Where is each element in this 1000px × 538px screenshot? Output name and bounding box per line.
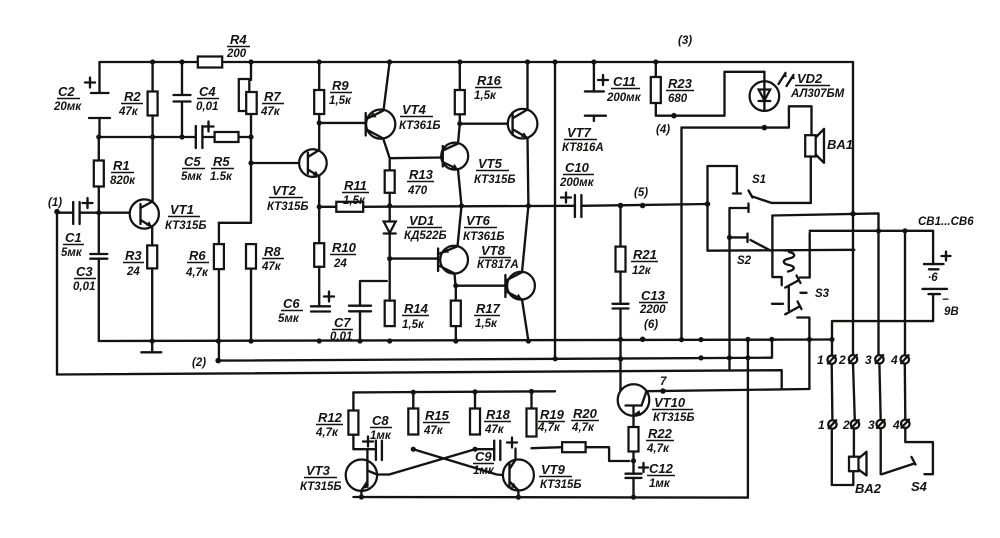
LED VD2 xyxy=(682,71,845,130)
svg-text:C12: C12 xyxy=(649,461,674,476)
wire R6 jog xyxy=(219,222,251,224)
switch S4 xyxy=(881,428,933,494)
svg-text:(2): (2) xyxy=(192,357,206,369)
transistor VT1 xyxy=(130,199,207,232)
capacitor C11 xyxy=(585,62,642,121)
svg-text:1мк: 1мк xyxy=(649,478,671,490)
svg-text:VT7: VT7 xyxy=(567,125,592,140)
svg-text:КТ315Б: КТ315Б xyxy=(540,479,582,491)
svg-text:1: 1 xyxy=(818,418,825,432)
svg-text:1,5к: 1,5к xyxy=(475,318,498,330)
transistor VT5 xyxy=(441,124,515,206)
wire bus B to S3 link xyxy=(771,339,772,357)
resistor R23 xyxy=(651,62,765,116)
svg-text:0,01: 0,01 xyxy=(73,281,95,293)
resistor R1 xyxy=(94,137,136,213)
diagonal cross-coupling wires xyxy=(389,449,503,475)
wire VT4 base xyxy=(319,122,366,124)
resistor R2 xyxy=(118,62,158,201)
svg-text:9В: 9В xyxy=(944,306,959,318)
svg-text:R4: R4 xyxy=(230,32,247,47)
svg-text:S2: S2 xyxy=(737,255,752,267)
wire oscillator ground bus xyxy=(353,494,748,499)
svg-text:R14: R14 xyxy=(404,301,429,316)
svg-text:КТ315Б: КТ315Б xyxy=(300,481,342,493)
svg-text:1мк: 1мк xyxy=(370,430,392,442)
node (4) xyxy=(656,113,677,136)
svg-text:2200: 2200 xyxy=(639,304,666,316)
capacitor C10 xyxy=(559,160,708,217)
svg-text:R23: R23 xyxy=(668,76,693,91)
capacitor C4 xyxy=(174,62,220,137)
resistor R12 xyxy=(315,392,367,449)
svg-text:820к: 820к xyxy=(110,175,136,187)
svg-text:47к: 47к xyxy=(423,425,444,437)
wire VT2 base xyxy=(251,162,308,164)
svg-text:1,5к: 1,5к xyxy=(329,95,352,107)
svg-text:7: 7 xyxy=(660,376,667,388)
svg-text:КТ315Б: КТ315Б xyxy=(653,412,695,424)
svg-text:R1: R1 xyxy=(113,158,130,173)
svg-text:(5): (5) xyxy=(634,187,648,199)
wire СВ1..СВ6 line xyxy=(772,211,974,355)
svg-text:47к: 47к xyxy=(260,106,281,118)
svg-text:4,7к: 4,7к xyxy=(185,267,209,279)
svg-text:R17: R17 xyxy=(476,301,501,316)
svg-text:VT4: VT4 xyxy=(402,102,427,117)
svg-text:КТ361Б: КТ361Б xyxy=(399,120,441,132)
svg-text:C1: C1 xyxy=(65,230,82,245)
svg-text:VT6: VT6 xyxy=(466,213,491,228)
resistor R13 xyxy=(385,158,434,208)
wire bus C y=374.5..370 xyxy=(57,370,782,389)
svg-text:4,7к: 4,7к xyxy=(646,443,670,455)
svg-text:R20: R20 xyxy=(573,406,598,421)
wire VT10 collector line y=391 xyxy=(647,376,810,394)
ground xyxy=(141,338,161,352)
svg-text:2: 2 xyxy=(838,353,846,367)
svg-text:S4: S4 xyxy=(911,479,928,494)
svg-text:АЛ307БМ: АЛ307БМ xyxy=(790,88,845,100)
label VT7 xyxy=(562,125,604,154)
svg-text:24: 24 xyxy=(333,258,347,270)
svg-text:680: 680 xyxy=(668,93,688,105)
svg-text:R5: R5 xyxy=(213,154,230,169)
wire bus B y=360.5..357.7 xyxy=(218,355,771,361)
resistor R14 xyxy=(385,259,429,344)
wire oscillator rail y=392 xyxy=(353,389,555,395)
svg-text:2: 2 xyxy=(842,418,850,432)
svg-text:СВ1...СВ6: СВ1...СВ6 xyxy=(918,216,974,228)
node (2) xyxy=(192,357,221,369)
resistor R18 xyxy=(470,392,511,452)
svg-text:S1: S1 xyxy=(752,174,766,186)
transistor VT4 xyxy=(366,62,441,158)
svg-text:VT1: VT1 xyxy=(170,202,194,217)
wire VD1 to VT6 base xyxy=(390,257,438,259)
svg-text:(3): (3) xyxy=(678,35,692,47)
resistor R6 xyxy=(185,223,224,361)
svg-text:C4: C4 xyxy=(199,84,216,99)
speaker BA1 xyxy=(764,106,853,203)
node dots on top rail xyxy=(150,59,155,64)
svg-text:КД522Б: КД522Б xyxy=(404,230,447,242)
svg-text:КТ816А: КТ816А xyxy=(562,142,604,154)
svg-text:C8: C8 xyxy=(372,413,389,428)
svg-text:4,7к: 4,7к xyxy=(571,422,595,434)
svg-text:(1): (1) xyxy=(48,197,62,209)
svg-text:C7: C7 xyxy=(334,315,351,330)
capacitor C7 xyxy=(330,281,387,344)
svg-text:1: 1 xyxy=(817,353,824,367)
resistor R11 xyxy=(319,178,369,212)
svg-text:КТ315Б: КТ315Б xyxy=(267,201,309,213)
resistor R22 xyxy=(629,426,675,463)
svg-text:R8: R8 xyxy=(264,244,281,259)
wire supply feed to oscillator x=555 xyxy=(554,62,556,359)
speaker BA2 xyxy=(832,429,882,496)
svg-text:4: 4 xyxy=(890,353,898,367)
svg-text:3: 3 xyxy=(865,353,872,367)
svg-text:R18: R18 xyxy=(486,407,511,422)
svg-text:R2: R2 xyxy=(124,89,141,104)
svg-text:R16: R16 xyxy=(477,73,502,88)
svg-text:5мк: 5мк xyxy=(278,313,300,325)
svg-text:1,5к: 1,5к xyxy=(474,90,497,102)
wire bus A common y=341..339 xyxy=(99,337,835,342)
svg-text:R19: R19 xyxy=(540,407,565,422)
wire LED net vertical x=681.5 xyxy=(680,128,682,340)
resistor R7 (double-drawn body) xyxy=(239,62,284,223)
battery GB 9В xyxy=(832,252,959,356)
svg-text:R3: R3 xyxy=(125,248,142,263)
svg-text:4,7к: 4,7к xyxy=(537,422,561,434)
capacitor C13 xyxy=(613,288,669,391)
svg-text:BA1: BA1 xyxy=(827,137,853,152)
svg-text:VT5: VT5 xyxy=(478,156,503,171)
svg-text:R13: R13 xyxy=(409,167,434,182)
capacitor C8 xyxy=(363,413,392,460)
svg-text:24: 24 xyxy=(126,266,140,278)
svg-text:BA2: BA2 xyxy=(855,481,882,496)
wire osc ground vertical x=747.9 xyxy=(747,339,749,497)
wire line to terminal 4 xyxy=(810,228,933,355)
svg-text:470: 470 xyxy=(407,185,428,197)
connector terminals row 2 xyxy=(818,418,910,432)
resistor R10 xyxy=(314,204,356,295)
svg-text:C3: C3 xyxy=(76,264,93,279)
svg-text:1,5к: 1,5к xyxy=(402,319,425,331)
svg-text:R6: R6 xyxy=(189,248,206,263)
resistor R9 xyxy=(314,62,352,126)
svg-text:C2: C2 xyxy=(58,84,75,99)
wire output mid line (5) xyxy=(363,203,575,208)
svg-text:R9: R9 xyxy=(332,78,349,93)
svg-text:R15: R15 xyxy=(425,408,450,423)
wires between terminal rows xyxy=(832,364,906,421)
svg-text:C10: C10 xyxy=(565,160,590,175)
wire feedback line y=137 from C2/R1 to R7 node xyxy=(99,136,196,138)
resistor R16 xyxy=(455,62,502,126)
transistor VT6 xyxy=(438,206,504,286)
connector terminals row 1 xyxy=(817,353,909,367)
switch S2 xyxy=(727,204,771,371)
capacitor C3 xyxy=(73,210,107,341)
resistor R3 xyxy=(123,227,157,341)
svg-text:R7: R7 xyxy=(264,89,281,104)
wire (5) line to S1 vertical xyxy=(705,166,855,251)
wire VT4 collector to VT5 base xyxy=(390,156,443,159)
capacitor C6 xyxy=(278,292,334,344)
svg-text:47к: 47к xyxy=(261,261,282,273)
wire VT6 collector to VT8 base xyxy=(453,283,505,301)
svg-text:R22: R22 xyxy=(648,426,673,441)
svg-text:12к: 12к xyxy=(632,265,652,277)
capacitor C1 xyxy=(57,198,141,259)
svg-text:КТ817А: КТ817А xyxy=(477,259,519,271)
switch S1 xyxy=(708,166,811,203)
svg-text:VT9: VT9 xyxy=(541,462,566,477)
wire top supply rail y=62 xyxy=(100,61,854,63)
transistor VT5a top-right xyxy=(460,62,538,206)
node (1) input xyxy=(48,197,62,215)
svg-text:20мк: 20мк xyxy=(53,101,82,113)
svg-text:200мк: 200мк xyxy=(559,177,595,189)
svg-text:VD1: VD1 xyxy=(409,213,434,228)
svg-text:5мк: 5мк xyxy=(61,247,83,259)
svg-text:(6): (6) xyxy=(644,319,658,331)
svg-text:200: 200 xyxy=(226,48,247,60)
svg-text:47к: 47к xyxy=(484,424,505,436)
svg-text:R11: R11 xyxy=(344,178,367,193)
svg-text:КТ361Б: КТ361Б xyxy=(463,231,505,243)
svg-text:VT10: VT10 xyxy=(654,395,686,410)
capacitor C2 xyxy=(53,62,110,137)
node (6) xyxy=(640,319,658,342)
svg-text:S3: S3 xyxy=(815,288,830,300)
resistor R19 xyxy=(527,392,566,437)
capacitor C12 xyxy=(626,461,676,497)
svg-text:КТ315Б: КТ315Б xyxy=(165,220,207,232)
svg-text:C13: C13 xyxy=(641,288,666,303)
svg-text:1,5к: 1,5к xyxy=(343,195,366,207)
svg-text:VT2: VT2 xyxy=(272,183,297,198)
resistor R5 xyxy=(210,132,239,183)
resistor R4 xyxy=(198,32,250,68)
svg-text:C11: C11 xyxy=(613,74,636,89)
svg-text:C6: C6 xyxy=(283,296,300,311)
svg-text:VT8: VT8 xyxy=(481,243,506,258)
svg-text:3: 3 xyxy=(868,418,875,432)
transistor VT8 xyxy=(477,206,535,344)
resistor R20 xyxy=(532,406,630,461)
svg-text:КТ315Б: КТ315Б xyxy=(474,174,516,186)
svg-text:200мк: 200мк xyxy=(606,92,642,104)
svg-text:1.5к: 1.5к xyxy=(210,171,233,183)
resistor R8 xyxy=(246,244,284,344)
svg-text:4,7к: 4,7к xyxy=(315,427,339,439)
resistor R17 xyxy=(451,301,501,344)
transistor VT2 xyxy=(267,123,327,213)
transistor VT9 xyxy=(503,449,582,497)
svg-text:∙6: ∙6 xyxy=(928,272,938,284)
svg-text:4: 4 xyxy=(892,418,900,432)
transistor VT3 xyxy=(300,449,389,497)
capacitor C9 xyxy=(473,438,517,478)
svg-text:R21: R21 xyxy=(633,247,657,262)
relay switch S3 xyxy=(772,216,830,390)
node (5) xyxy=(618,187,649,208)
svg-text:VT3: VT3 xyxy=(306,463,331,478)
svg-text:VD2: VD2 xyxy=(797,71,823,86)
svg-text:−: − xyxy=(942,294,949,306)
wire input shield vertical xyxy=(56,212,58,375)
svg-text:47к: 47к xyxy=(118,106,139,118)
resistor R21 xyxy=(616,206,659,304)
svg-text:C5: C5 xyxy=(184,154,201,169)
transistor VT10 xyxy=(618,384,695,427)
capacitor C5 xyxy=(181,122,214,184)
svg-text:R10: R10 xyxy=(332,240,357,255)
svg-text:0,01: 0,01 xyxy=(196,101,218,113)
svg-text:C9: C9 xyxy=(475,449,492,464)
svg-text:R12: R12 xyxy=(318,410,343,425)
resistor R15 xyxy=(408,392,450,451)
wire rail right vertical down to terminal 2 xyxy=(852,62,854,355)
diode VD1 xyxy=(384,206,447,261)
svg-text:(4): (4) xyxy=(656,124,670,136)
svg-text:5мк: 5мк xyxy=(181,171,203,183)
